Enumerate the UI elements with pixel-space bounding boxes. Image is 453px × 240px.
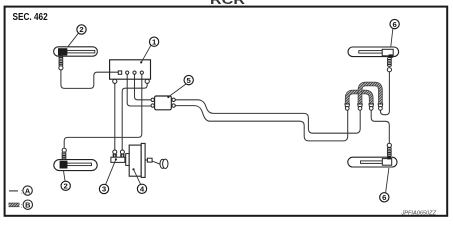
- svg-text::: :: [21, 188, 23, 195]
- svg-text:4: 4: [140, 185, 145, 194]
- svg-text:B: B: [25, 200, 30, 209]
- svg-text:A: A: [25, 186, 31, 195]
- svg-text:JPFIA0650ZZ: JPFIA0650ZZ: [400, 211, 436, 217]
- svg-text:SEC. 462: SEC. 462: [13, 12, 49, 23]
- svg-text:6: 6: [382, 193, 386, 202]
- svg-text:5: 5: [187, 76, 192, 85]
- svg-text::: :: [21, 202, 23, 209]
- svg-text:2: 2: [79, 25, 83, 34]
- svg-text:1: 1: [152, 37, 157, 46]
- svg-text:2: 2: [64, 182, 68, 191]
- svg-text:3: 3: [102, 185, 106, 194]
- svg-text:6: 6: [392, 20, 396, 29]
